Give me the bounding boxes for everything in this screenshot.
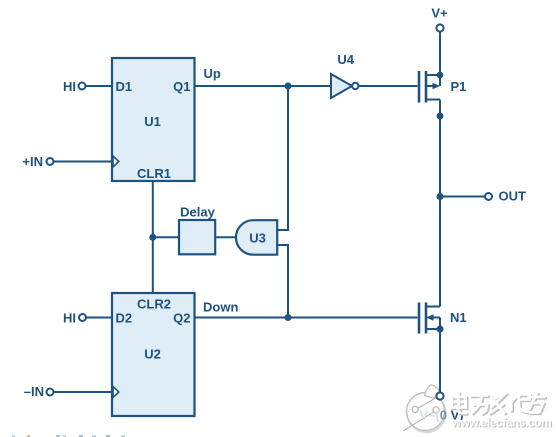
wire HI to D2 [86, 317, 112, 319]
wire Down net up to U3 input [277, 245, 288, 318]
svg-text:V+: V+ [431, 6, 448, 21]
svg-text:Q1: Q1 [173, 79, 190, 94]
svg-text:HI: HI [63, 311, 76, 326]
svg-text:CLR1: CLR1 [137, 166, 171, 181]
watermark logo (elecfans hand) [403, 385, 446, 432]
svg-text:CLR2: CLR2 [137, 297, 171, 312]
-IN input terminal [24, 384, 54, 399]
watermark text: www.elecfans.com [451, 416, 553, 431]
wire Q1 Up net to P1 gate [195, 66, 418, 86]
wire -IN to U2 clock [54, 391, 113, 393]
HI input terminal (bottom) [63, 311, 86, 326]
V+ supply terminal [431, 6, 448, 32]
delay block [179, 205, 216, 255]
U1 clock input triangle [113, 156, 119, 167]
wire N1 source to V- [439, 329, 441, 393]
wire V+ to P1 source [439, 32, 441, 76]
node OUT junction [437, 193, 444, 200]
svg-text:Up: Up [204, 66, 221, 81]
svg-text:D1: D1 [116, 79, 133, 94]
V- supply terminal [420, 392, 464, 422]
wire Q2 Down net to N1 gate [195, 300, 418, 318]
wire Up net down to U3 input [277, 86, 288, 230]
svg-text:Down: Down [203, 300, 238, 315]
svg-text:–IN: –IN [24, 384, 44, 399]
node P1 source junction [437, 72, 444, 79]
OUT terminal [485, 189, 526, 204]
svg-text:Delay: Delay [180, 205, 215, 220]
svg-text:www.elecfans.com: www.elecfans.com [451, 416, 552, 430]
svg-text:D2: D2 [116, 311, 133, 326]
inverter U4 [331, 52, 358, 98]
svg-text:U2: U2 [144, 347, 161, 362]
svg-text:U1: U1 [144, 114, 161, 129]
node junction on Down net [285, 314, 292, 321]
wire Delay to U3 output [215, 236, 236, 238]
wire to OUT terminal [440, 196, 485, 198]
HI input terminal (top) [63, 79, 86, 94]
svg-text:P1: P1 [451, 79, 467, 94]
flip-flop U2 [112, 293, 195, 416]
watermark text: Chinese glyph shapes [452, 393, 546, 414]
svg-text:HI: HI [63, 79, 76, 94]
svg-text:+IN: +IN [22, 154, 43, 169]
wire HI to D1 [86, 85, 113, 87]
wire P1 drain to N1 drain [439, 100, 441, 307]
svg-text:OUT: OUT [499, 189, 527, 204]
svg-text:N1: N1 [450, 310, 467, 325]
wire CLR node to Delay [153, 236, 179, 238]
PMOS transistor P1 [419, 71, 466, 103]
svg-text:U3: U3 [249, 231, 266, 246]
AND gate U3 (mirrored, inputs on right) [236, 220, 277, 255]
wire +IN to U1 clock [54, 161, 113, 163]
svg-text:Q2: Q2 [173, 311, 190, 326]
node on drain wire [437, 113, 444, 120]
U2 clock input triangle [113, 387, 119, 398]
svg-text:U4: U4 [337, 52, 354, 67]
+IN input terminal [22, 154, 53, 169]
flip-flop U1 [112, 58, 195, 181]
caption fragment (cropped at bottom edge) [12, 435, 125, 437]
node N1 source junction [437, 326, 444, 333]
NMOS transistor N1 [419, 303, 467, 334]
node junction on CLR net [149, 234, 156, 241]
wire CLR1 to CLR2 [152, 181, 154, 293]
node junction on Up net [285, 83, 292, 90]
